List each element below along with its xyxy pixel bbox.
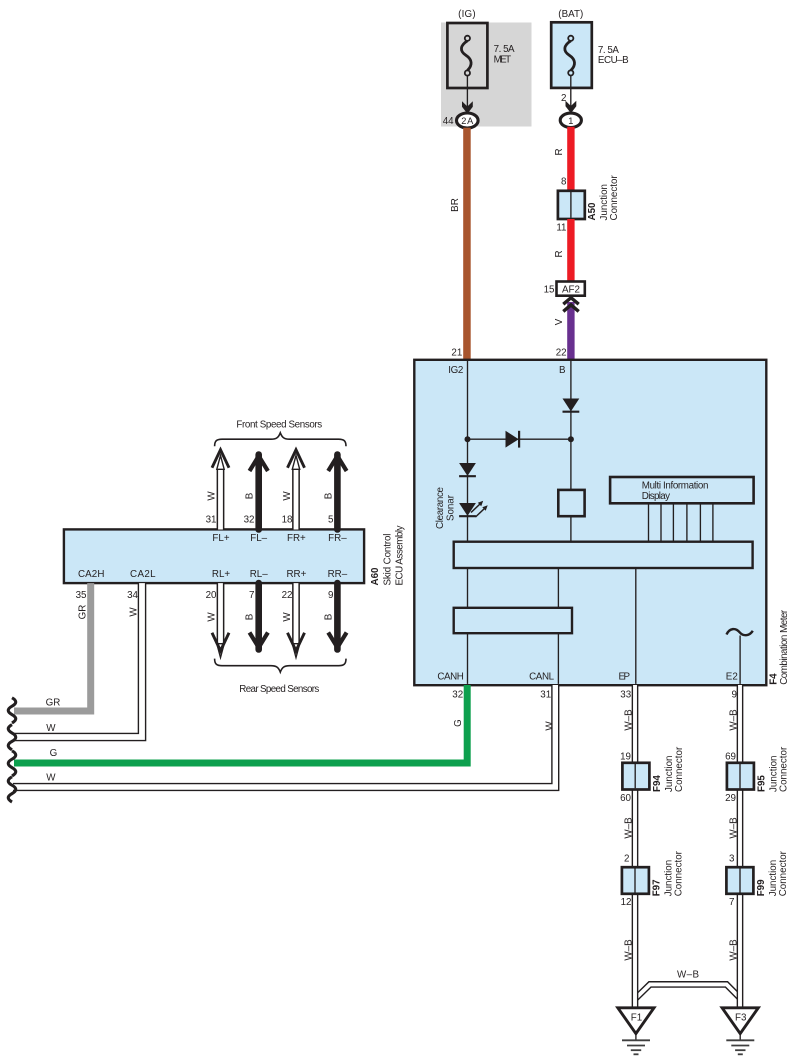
svg-text:20: 20 bbox=[206, 590, 217, 601]
svg-text:CANL: CANL bbox=[529, 672, 555, 683]
continuation squiggle W bbox=[8, 725, 16, 750]
internal block rect bbox=[454, 608, 572, 633]
junction connector F97 bbox=[622, 867, 649, 894]
continuation squiggle G bbox=[8, 751, 16, 776]
svg-text:9: 9 bbox=[732, 689, 737, 700]
junction connector F99 bbox=[726, 867, 753, 894]
svg-text:29: 29 bbox=[725, 793, 736, 804]
brace front speed sensors bbox=[215, 433, 346, 447]
internal wire node row bbox=[468, 438, 571, 440]
svg-text:F3: F3 bbox=[735, 1013, 747, 1024]
ground F3 bbox=[722, 1008, 758, 1055]
svg-text:12: 12 bbox=[621, 897, 632, 908]
internal wire CANL lower bbox=[557, 633, 559, 684]
wire fuse MET to connector 2A bbox=[466, 76, 468, 107]
svg-text:34: 34 bbox=[127, 590, 138, 601]
svg-text:A50: A50 bbox=[587, 202, 598, 221]
wire W-B jumper between grounds bbox=[635, 984, 740, 999]
svg-text:W: W bbox=[282, 612, 293, 622]
svg-text:2A: 2A bbox=[461, 116, 474, 126]
svg-text:G: G bbox=[50, 748, 58, 759]
brace rear speed sensors bbox=[215, 659, 346, 673]
svg-text:18: 18 bbox=[282, 514, 293, 525]
svg-text:3: 3 bbox=[729, 854, 735, 865]
junction connector F95 bbox=[727, 763, 754, 790]
svg-text:W: W bbox=[207, 491, 218, 501]
svg-text:31: 31 bbox=[206, 514, 217, 525]
svg-text:W–B: W–B bbox=[729, 939, 740, 961]
svg-text:BR: BR bbox=[450, 198, 461, 212]
svg-text:B: B bbox=[245, 613, 256, 620]
svg-text:5: 5 bbox=[328, 514, 334, 525]
internal wire CANH lower bbox=[467, 633, 469, 684]
svg-text:7: 7 bbox=[729, 897, 734, 908]
wire B sensor RL- down bbox=[250, 583, 268, 649]
internal wire E2 bbox=[739, 636, 741, 684]
svg-text:W–B: W–B bbox=[624, 709, 635, 731]
svg-text:W–B: W–B bbox=[624, 939, 635, 961]
svg-text:15: 15 bbox=[544, 284, 555, 295]
svg-text:32: 32 bbox=[244, 514, 255, 525]
internal wire B vertical bbox=[570, 361, 572, 490]
svg-text:Connector: Connector bbox=[609, 175, 620, 221]
fuse 7.5A ECU-B bbox=[551, 22, 592, 88]
wire W sensor FR+ up bbox=[288, 450, 305, 530]
svg-text:EP: EP bbox=[619, 672, 631, 683]
continuation squiggle GR bbox=[8, 698, 16, 723]
svg-text:(BAT): (BAT) bbox=[558, 9, 583, 20]
node junction dot right bbox=[568, 436, 574, 442]
wire W sensor RL+ down bbox=[212, 583, 229, 657]
svg-text:B: B bbox=[245, 492, 256, 499]
svg-text:F99: F99 bbox=[756, 879, 767, 896]
svg-text:21: 21 bbox=[451, 348, 462, 359]
svg-text:F95: F95 bbox=[756, 775, 767, 792]
LED clearance sonar bbox=[459, 501, 488, 517]
svg-text:F4: F4 bbox=[768, 673, 779, 685]
svg-text:Connector: Connector bbox=[674, 746, 685, 792]
svg-text:W: W bbox=[46, 723, 56, 734]
arrow into connector 1 bbox=[566, 101, 577, 114]
connector 2A bbox=[457, 113, 479, 128]
internal wire CANL upper bbox=[557, 568, 559, 608]
svg-text:CANH: CANH bbox=[437, 672, 464, 683]
svg-text:FL+: FL+ bbox=[212, 533, 229, 544]
svg-text:1: 1 bbox=[568, 116, 573, 126]
diode on node row bbox=[506, 431, 520, 448]
svg-text:CA2H: CA2H bbox=[78, 569, 105, 580]
wire GR from pin 35 to left edge bbox=[14, 583, 91, 711]
svg-text:RL+: RL+ bbox=[212, 569, 231, 580]
svg-text:F1: F1 bbox=[631, 1013, 642, 1024]
tilde symbol E2 bbox=[727, 629, 753, 635]
svg-text:11: 11 bbox=[556, 223, 566, 234]
wire W sensor RR+ down bbox=[288, 583, 305, 657]
svg-text:Combination Meter: Combination Meter bbox=[779, 609, 790, 685]
internal wire CANH upper bbox=[467, 568, 469, 608]
svg-text:FL–: FL– bbox=[250, 533, 267, 544]
svg-text:7. 5A: 7. 5A bbox=[494, 44, 515, 55]
svg-text:W–B: W–B bbox=[729, 709, 740, 731]
connector AF2 bbox=[557, 282, 585, 296]
svg-text:CA2L: CA2L bbox=[130, 569, 156, 580]
ground F1 bbox=[618, 1008, 654, 1055]
svg-text:F94: F94 bbox=[652, 775, 663, 792]
svg-text:FR+: FR+ bbox=[287, 533, 306, 544]
svg-text:Skid Control: Skid Control bbox=[383, 534, 394, 586]
svg-text:RR–: RR– bbox=[328, 569, 348, 580]
svg-text:E2: E2 bbox=[726, 672, 738, 683]
svg-text:ECU Assembly: ECU Assembly bbox=[395, 525, 406, 585]
svg-text:33: 33 bbox=[620, 689, 631, 700]
svg-text:G: G bbox=[453, 719, 464, 727]
junction connector F94 bbox=[622, 763, 649, 790]
wire W-B from meter pin 9 to ground F3 bbox=[737, 685, 744, 1008]
internal block square on B line bbox=[558, 490, 584, 516]
arrow into connector 2A bbox=[462, 101, 473, 114]
svg-text:(IG): (IG) bbox=[458, 9, 476, 20]
svg-text:AF2: AF2 bbox=[562, 284, 580, 295]
svg-text:22: 22 bbox=[282, 590, 293, 601]
svg-text:W: W bbox=[129, 607, 140, 617]
svg-text:R: R bbox=[554, 148, 565, 155]
svg-text:Rear Speed Sensors: Rear Speed Sensors bbox=[239, 684, 319, 695]
svg-text:V: V bbox=[554, 318, 565, 325]
combination meter box F4 bbox=[414, 360, 766, 685]
svg-text:31: 31 bbox=[540, 689, 551, 700]
svg-text:IG2: IG2 bbox=[448, 365, 463, 376]
wire BR (brown) connector 2A to meter pin 21 bbox=[463, 128, 471, 360]
svg-text:ECU–B: ECU–B bbox=[598, 55, 629, 66]
skid control ECU box A60 bbox=[64, 529, 364, 583]
svg-text:Sonar: Sonar bbox=[446, 494, 457, 521]
multi information display bbox=[610, 477, 754, 503]
svg-text:B: B bbox=[323, 613, 334, 620]
svg-text:FR–: FR– bbox=[328, 533, 347, 544]
wire R (red) A50 to AF2 bbox=[567, 219, 574, 282]
svg-text:69: 69 bbox=[725, 752, 736, 763]
junction connector A50 bbox=[558, 191, 585, 219]
svg-text:60: 60 bbox=[620, 793, 631, 804]
svg-text:W–B: W–B bbox=[729, 817, 740, 839]
wire W-B from meter pin 33 to ground F1 bbox=[632, 685, 639, 1008]
svg-text:9: 9 bbox=[328, 590, 333, 601]
svg-text:7: 7 bbox=[249, 590, 254, 601]
svg-text:Connector: Connector bbox=[779, 746, 790, 792]
svg-text:W: W bbox=[545, 721, 556, 731]
svg-text:Clearance: Clearance bbox=[435, 486, 446, 529]
svg-text:W–B: W–B bbox=[624, 817, 635, 839]
svg-text:W: W bbox=[282, 491, 293, 501]
svg-text:GR: GR bbox=[78, 605, 89, 620]
svg-text:A60: A60 bbox=[370, 567, 381, 586]
wire W from meter pin 31 to left edge bbox=[13, 685, 555, 787]
wire B sensor FR- up bbox=[328, 455, 346, 530]
svg-text:W: W bbox=[46, 773, 56, 784]
svg-text:R: R bbox=[554, 250, 565, 257]
svg-text:32: 32 bbox=[452, 689, 463, 700]
svg-text:22: 22 bbox=[556, 348, 567, 359]
svg-text:Display: Display bbox=[642, 491, 670, 502]
svg-text:RL–: RL– bbox=[250, 569, 269, 580]
fuse 7.5A MET bbox=[447, 23, 487, 88]
svg-text:B: B bbox=[323, 492, 334, 499]
svg-text:Front Speed Sensors: Front Speed Sensors bbox=[236, 420, 322, 431]
continuation squiggle W bbox=[8, 777, 16, 802]
shield chevrons below AF2 bbox=[563, 298, 578, 305]
internal bus bar bbox=[454, 542, 753, 568]
wire V (violet) AF2 to meter pin 22 bbox=[567, 302, 574, 361]
svg-text:2: 2 bbox=[624, 854, 629, 865]
wire fuse ECU-B to connector 1 bbox=[570, 76, 572, 107]
svg-text:W–B: W–B bbox=[677, 970, 699, 981]
wire W sensor FL+ up bbox=[212, 450, 229, 530]
internal wire B to bus bbox=[570, 516, 572, 542]
node junction dot left bbox=[465, 436, 471, 442]
svg-text:F97: F97 bbox=[651, 879, 662, 896]
wire W from pin 34 to left edge bbox=[13, 583, 142, 737]
svg-text:W: W bbox=[207, 612, 218, 622]
svg-text:Connector: Connector bbox=[674, 850, 685, 896]
diode on IG2 line bbox=[459, 463, 476, 476]
connector 1 bbox=[560, 113, 581, 127]
wire B sensor FL- up bbox=[250, 455, 268, 530]
svg-text:B: B bbox=[559, 365, 566, 376]
svg-text:Connector: Connector bbox=[778, 850, 789, 896]
svg-text:Multi Information: Multi Information bbox=[642, 480, 709, 491]
svg-text:8: 8 bbox=[561, 177, 567, 188]
grey fuse panel background bbox=[441, 23, 532, 127]
svg-text:44: 44 bbox=[443, 116, 454, 127]
svg-text:RR+: RR+ bbox=[286, 569, 306, 580]
svg-text:GR: GR bbox=[46, 698, 61, 709]
internal wire IG2 vertical bbox=[467, 361, 469, 542]
wire G from meter pin 32 to left edge bbox=[14, 685, 467, 763]
wires MID to bus bbox=[649, 503, 713, 541]
internal wire EP bbox=[635, 568, 637, 684]
svg-text:35: 35 bbox=[76, 590, 87, 601]
diode on B line bbox=[563, 399, 580, 412]
svg-text:MET: MET bbox=[494, 55, 512, 66]
wire R (red) connector 1 to A50 bbox=[567, 127, 574, 192]
svg-text:19: 19 bbox=[620, 752, 631, 763]
wire B sensor RR- down bbox=[328, 583, 346, 649]
